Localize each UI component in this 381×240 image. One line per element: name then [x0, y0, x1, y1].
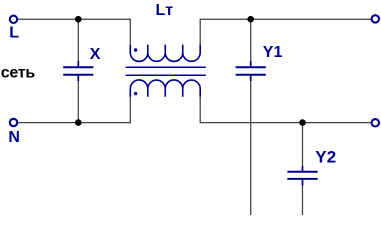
svg-text:Y2: Y2 [315, 147, 336, 166]
junction dot top-right (L' / Y1) [247, 16, 254, 23]
junction dot bottom-left (N / X cap) [75, 119, 82, 126]
svg-text:N: N [8, 129, 20, 146]
capacitor X [63, 61, 93, 81]
choke core lines [126, 67, 206, 75]
wire top-left: terminal L to choke top-left [18, 19, 131, 45]
terminal N [10, 119, 17, 126]
capacitor Y1 [236, 61, 266, 81]
terminal out bottom [372, 119, 379, 126]
wire Y2 bottom lead to chassis [302, 185, 304, 215]
wire X cap top lead [77, 19, 79, 61]
svg-text:X: X [90, 46, 101, 63]
wire top-right: choke top-right to terminal [200, 19, 371, 45]
junction dot top-left (L / X cap) [75, 16, 82, 23]
wire bottom-right: choke bottom-right to terminal [200, 97, 371, 123]
terminal L [10, 16, 17, 23]
terminal out top [372, 15, 379, 22]
capacitor Y2 [287, 166, 317, 185]
svg-text:сеть: сеть [1, 65, 36, 82]
svg-text:Y1: Y1 [263, 44, 283, 61]
svg-text:L: L [9, 25, 19, 42]
wire Y1 bottom lead to chassis (crosses bottom rail) [250, 81, 252, 215]
svg-text:Lт: Lт [156, 2, 174, 19]
wire Y2 top lead [302, 123, 304, 167]
wire bottom-left: terminal N to choke bottom-left [18, 97, 131, 123]
choke top phase dot [134, 48, 137, 51]
junction dot bottom-right (N' / Y2) [299, 119, 306, 126]
choke Lt bottom winding [130, 80, 200, 97]
choke bottom phase dot [134, 92, 137, 95]
wire X cap bottom lead [77, 81, 79, 123]
choke Lt top winding [130, 45, 200, 62]
wire Y1 top lead [250, 19, 252, 61]
